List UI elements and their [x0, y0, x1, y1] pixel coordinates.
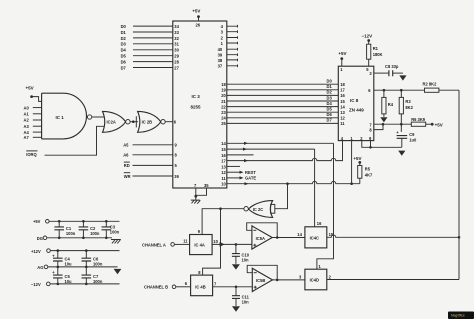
svg-text:A4: A4: [24, 130, 30, 135]
wire WR to IC3 pin36: [133, 175, 173, 177]
node DG rail: [37, 236, 47, 241]
wire RD to IC3 pin5: [133, 164, 173, 166]
IC U4A analog switch body: [190, 235, 213, 255]
node CHANNEL A: [142, 242, 174, 247]
node CHANNEL B: [144, 285, 176, 290]
svg-text:29: 29: [174, 54, 179, 59]
wire D1 to pin33: [133, 30, 180, 35]
svg-text:R4: R4: [388, 102, 394, 107]
node +5V (R6): [431, 122, 443, 127]
wire A2: [33, 119, 42, 121]
junction C10: [235, 243, 238, 246]
svg-text:100n: 100n: [110, 230, 120, 235]
svg-text:IC4C: IC4C: [310, 235, 319, 240]
pin 11 GATE: [221, 176, 256, 181]
wire AG rail: [48, 266, 118, 268]
capacitor C9 1u0: [396, 130, 417, 147]
resistor R6 3K9: [411, 117, 432, 126]
node +5V (IC1 top input): [26, 86, 34, 99]
node +5V rail: [33, 219, 49, 224]
svg-text:RD: RD: [124, 163, 130, 168]
SECTION-IC3: [121, 8, 360, 275]
svg-text:DG: DG: [37, 236, 43, 241]
capacitor C1 100n: [54, 221, 75, 238]
resistor R4: [382, 90, 394, 117]
svg-text:14: 14: [340, 104, 345, 109]
bus D2 pin20 to ADC pin16: [221, 90, 345, 99]
pin 2 stub: [221, 35, 238, 40]
svg-text:R3: R3: [405, 99, 411, 104]
junction C4 top: [57, 249, 60, 252]
svg-text:D0: D0: [327, 79, 333, 84]
wire D2 to pin32: [133, 36, 180, 41]
junction R4 top: [383, 89, 386, 92]
junction pin9: [369, 146, 372, 149]
svg-text:IC5B: IC5B: [256, 278, 265, 283]
wire D5 to pin29: [133, 54, 180, 59]
svg-text:D7: D7: [121, 65, 127, 70]
junction IC5B out: [276, 279, 279, 282]
svg-text:16: 16: [317, 221, 322, 226]
pin 1 stub: [221, 41, 238, 46]
pin 2 wire IC4D out to loop: [327, 274, 459, 279]
svg-text:D3: D3: [327, 95, 333, 100]
capacitor C10 10n: [232, 244, 250, 264]
svg-text:D4: D4: [327, 101, 333, 106]
wire IC5B feedback: [247, 265, 277, 280]
resistor R1 180K: [367, 41, 383, 60]
wire IC2A out to IC2B inputs: [130, 121, 138, 123]
wire IC2C input tap: [275, 184, 288, 209]
resistor R2 8K2: [423, 82, 460, 93]
svg-text:1u0: 1u0: [409, 138, 417, 143]
IC U4C body: [305, 227, 327, 248]
node AG rail: [37, 265, 48, 270]
ground (IC3 pins 7,35 hatched): [191, 200, 201, 204]
node RD: [124, 162, 130, 168]
junction C6 bottom: [85, 266, 88, 269]
capacitor C8 33p: [385, 64, 403, 76]
wire CHANNEL A to IC4A pin11: [174, 239, 189, 245]
svg-text:180K: 180K: [373, 52, 383, 57]
capacitor C4 10u: [52, 251, 72, 267]
svg-text:IORQ: IORQ: [26, 152, 37, 157]
junction C1 top: [58, 220, 61, 223]
svg-text:IC 2B: IC 2B: [142, 120, 153, 125]
svg-text:4K7: 4K7: [365, 173, 373, 178]
svg-text:11: 11: [340, 121, 345, 126]
svg-text:21: 21: [221, 99, 226, 104]
wire IORQ to IC2A lower input: [45, 126, 104, 155]
svg-text:100n: 100n: [93, 279, 103, 284]
capacitor C5 10u: [52, 267, 72, 284]
svg-text:13: 13: [221, 164, 226, 169]
wire D4 to pin30: [133, 48, 180, 53]
pin 13 stub: [221, 164, 240, 169]
arrowhead control join: [220, 242, 225, 247]
svg-text:38: 38: [218, 58, 223, 63]
wire -12V rail: [50, 283, 119, 285]
svg-text:100n: 100n: [66, 231, 76, 236]
svg-text:10n: 10n: [242, 258, 250, 263]
capacitor C6 100n: [82, 251, 103, 267]
pin 7 wire IC4B out: [213, 281, 253, 287]
wire pin15 vertical down to IC4C pin16: [314, 149, 316, 227]
wire IC2B out to IC3 pin6: [165, 121, 173, 123]
junction C3 top: [105, 220, 108, 223]
svg-text:D2: D2: [327, 90, 333, 95]
svg-text:GATE: GATE: [245, 176, 256, 181]
svg-text:12: 12: [340, 116, 345, 121]
junction C11: [235, 286, 238, 289]
ground (C11): [232, 306, 240, 313]
svg-text:A6: A6: [123, 153, 129, 158]
ground (DG hatched): [111, 240, 121, 244]
wire +5V to pin26: [198, 17, 200, 21]
SECTION-LEFT: [24, 86, 173, 179]
junction C7 bottom: [85, 283, 88, 286]
pin 12 REST: [221, 170, 256, 175]
wire CHANNEL B to IC4B pin6: [176, 281, 191, 287]
ground (C10): [232, 264, 240, 271]
svg-text:IC 8: IC 8: [350, 98, 359, 103]
pin 40 stub: [218, 47, 238, 52]
wire ADC pin1 down to pin10 net: [351, 141, 353, 184]
wire +5V rail: [49, 220, 119, 222]
wire right loop vertical: [458, 90, 460, 279]
op-amp IC5B: [252, 268, 272, 291]
svg-text:+5V: +5V: [192, 8, 200, 13]
svg-text:R6 3K9: R6 3K9: [411, 117, 426, 122]
svg-text:10u: 10u: [65, 279, 73, 284]
wire IC1 out to IC2A: [92, 116, 104, 118]
wire A0: [33, 107, 42, 109]
wire A3: [33, 125, 42, 127]
svg-text:D1: D1: [327, 84, 333, 89]
svg-text:IC4D: IC4D: [310, 278, 319, 283]
svg-text:14: 14: [221, 141, 226, 146]
bus D7 pin25 to ADC pin11: [221, 118, 345, 127]
bus D4 pin22 to ADC pin14: [221, 101, 345, 110]
pin 15 wire IC4C out to loop: [327, 232, 459, 237]
svg-text:+5V: +5V: [26, 86, 34, 91]
svg-text:R2 8K2: R2 8K2: [423, 82, 438, 87]
svg-text:CHANNEL A: CHANNEL A: [142, 242, 166, 247]
watermark: [448, 312, 474, 319]
gate IC2A (NOR): [103, 111, 131, 132]
node +12V rail: [31, 249, 50, 254]
capacitor C11 10n: [232, 287, 250, 306]
svg-text:11: 11: [221, 176, 226, 181]
svg-text:IC5A: IC5A: [256, 236, 265, 241]
capacitor C2 100n: [79, 221, 100, 238]
pin 7 label and ground lead: [194, 183, 197, 200]
svg-text:37: 37: [218, 64, 223, 69]
svg-text:31: 31: [174, 42, 179, 47]
IC U4B body: [191, 275, 213, 296]
svg-text:D3: D3: [121, 42, 127, 47]
svg-text:+5V: +5V: [435, 122, 443, 127]
bus D6 pin24 to ADC pin12: [221, 112, 345, 121]
pin 10 wire IC4A out: [212, 239, 252, 245]
svg-text:D5: D5: [121, 54, 127, 59]
wire A5 to IC3 pin9: [133, 144, 173, 146]
svg-text:D4: D4: [121, 48, 127, 53]
svg-text:20: 20: [221, 93, 226, 98]
svg-text:17: 17: [340, 88, 345, 93]
pin 4 stub: [221, 24, 238, 29]
svg-text:8K2: 8K2: [405, 105, 413, 110]
SECTION-RIGHT: [338, 34, 459, 280]
svg-text:100n: 100n: [90, 231, 100, 236]
pin 14 wire to ADC pin4: [221, 141, 333, 146]
bus D0 pin18 to ADC pin18: [221, 79, 345, 88]
svg-text:10: 10: [221, 182, 226, 187]
svg-text:36: 36: [174, 174, 179, 179]
svg-text:10u: 10u: [65, 261, 73, 266]
wire +5V to IC1 input: [32, 97, 42, 102]
IC U8 ZN448 ADC body: [338, 66, 374, 140]
svg-text:+5V: +5V: [33, 219, 41, 224]
junction C2 bottom: [82, 237, 85, 240]
svg-text:22: 22: [221, 104, 226, 109]
wire pin14 vertical down to IC4D: [317, 143, 334, 269]
pin 38 stub: [218, 58, 238, 63]
node WR: [124, 173, 131, 179]
pin 35 label and lead: [196, 183, 209, 195]
svg-text:24: 24: [221, 116, 226, 121]
svg-text:19: 19: [221, 88, 226, 93]
wire D7 to pin27: [133, 65, 180, 70]
svg-text:R1: R1: [373, 46, 379, 51]
svg-text:34: 34: [174, 24, 179, 29]
svg-text:11: 11: [183, 239, 188, 244]
junction R3 bottom / C9: [400, 123, 403, 126]
svg-text:A0: A0: [24, 105, 30, 110]
svg-text:+5V: +5V: [353, 156, 361, 161]
wire DG rail: [47, 237, 112, 239]
capacitor C7 100n: [82, 267, 103, 284]
junction loop: [458, 236, 461, 239]
svg-text:Mag0ffice: Mag0ffice: [451, 314, 465, 318]
svg-text:A7: A7: [24, 135, 30, 140]
pin 10 wire to ADC pin1 and R5: [221, 181, 360, 186]
svg-text:C8 33p: C8 33p: [385, 64, 399, 69]
svg-text:A2: A2: [24, 118, 30, 123]
svg-text:IC 4A: IC 4A: [194, 242, 205, 247]
junction C3 bottom: [105, 237, 108, 240]
node -12V: [362, 34, 373, 42]
op-amp IC5A: [252, 226, 272, 249]
svg-text:−12V: −12V: [362, 34, 373, 39]
svg-text:12: 12: [221, 170, 226, 175]
wire +5V to ADC pin1: [340, 59, 343, 73]
wire D6 to pin28: [133, 60, 180, 65]
IC U3 8255 body: [173, 21, 227, 188]
node -12V rail: [31, 282, 50, 287]
svg-text:D2: D2: [121, 36, 127, 41]
ground (R4): [380, 117, 387, 124]
svg-text:18: 18: [340, 82, 345, 87]
svg-text:A1: A1: [24, 112, 30, 117]
svg-text:25: 25: [221, 121, 226, 126]
svg-text:13: 13: [340, 110, 345, 115]
svg-text:C9: C9: [409, 132, 415, 137]
svg-text:100n: 100n: [93, 261, 103, 266]
wire IC5A out to IC4C pin14: [272, 232, 305, 238]
wire IC5B out to IC4D pin3: [273, 274, 305, 280]
svg-text:14: 14: [297, 232, 302, 237]
junction pin10 to IC2C: [286, 182, 289, 185]
pin 7 wire to R6: [369, 122, 411, 127]
svg-text:+5V: +5V: [338, 51, 346, 56]
wire A7: [33, 136, 42, 138]
pin 15 wire: [221, 147, 314, 152]
svg-text:23: 23: [221, 110, 226, 115]
svg-text:16: 16: [221, 153, 226, 158]
svg-text:IC 4B: IC 4B: [195, 285, 206, 290]
wire control to IC4B pin8: [203, 209, 221, 275]
wire IC2C output to IC4A pin9: [202, 209, 244, 235]
svg-text:16: 16: [340, 93, 345, 98]
svg-text:18: 18: [221, 82, 226, 87]
svg-text:AG: AG: [37, 265, 43, 270]
svg-text:WR: WR: [124, 174, 131, 179]
svg-text:IC2A: IC2A: [107, 120, 116, 125]
bus D5 pin23 to ADC pin13: [221, 107, 345, 116]
junction C1 bottom: [58, 237, 61, 240]
svg-text:+12V: +12V: [31, 249, 41, 254]
bus D3 pin21 to ADC pin15: [221, 95, 345, 104]
svg-text:R5: R5: [365, 167, 371, 172]
wire pins 2,9 to ground: [362, 141, 402, 148]
junction C2 top: [82, 220, 85, 223]
svg-text:D7: D7: [327, 118, 333, 123]
svg-text:28: 28: [174, 60, 179, 65]
gate IC2C (NOR inverter, mirrored): [244, 201, 275, 218]
svg-text:27: 27: [174, 65, 179, 70]
pin 6 wire to R2: [368, 88, 424, 93]
IC U4D body: [305, 269, 327, 290]
svg-text:40: 40: [218, 47, 223, 52]
svg-text:IC 3: IC 3: [192, 94, 201, 99]
svg-text:8255: 8255: [191, 104, 202, 109]
svg-text:−12V: −12V: [31, 282, 41, 287]
junction R3 top: [400, 89, 403, 92]
pin 16 stub: [221, 153, 253, 158]
svg-text:15: 15: [221, 147, 226, 152]
junction IC2B input tie: [132, 116, 136, 127]
capacitor C3 100n: [102, 221, 120, 238]
pin 3 wire to C8: [369, 71, 388, 76]
junction IC5A out: [276, 236, 279, 239]
resistor R5 4K7: [358, 162, 373, 183]
wire A4: [33, 131, 42, 133]
gate IC1 (8-input NAND): [42, 93, 92, 139]
svg-text:D6: D6: [327, 112, 333, 117]
wire D3 to pin31: [133, 42, 180, 47]
node IORQ: [26, 151, 37, 157]
wire A6 to IC3 pin8: [133, 154, 173, 156]
ground (C9 / pins 2,9): [398, 147, 405, 157]
svg-text:ZN 449: ZN 449: [349, 108, 364, 113]
wire D0 to pin34: [133, 24, 180, 29]
node +5V (R5): [353, 156, 361, 164]
svg-text:CHANNEL B: CHANNEL B: [144, 285, 168, 290]
wire A1: [33, 113, 42, 115]
wire IC5A feedback: [247, 223, 278, 238]
pin 17 wire to ADC pin4 lead: [221, 141, 342, 164]
ground (AG): [114, 267, 122, 276]
svg-text:D1: D1: [121, 30, 127, 35]
resistor R3 8K2: [399, 90, 413, 132]
junction C4 bottom: [57, 266, 60, 269]
svg-text:A5: A5: [123, 143, 129, 148]
svg-text:17: 17: [221, 159, 226, 164]
svg-text:30: 30: [174, 48, 179, 53]
wire +12V rail: [50, 250, 119, 252]
wire R1 to ADC pin5: [366, 59, 369, 72]
pin 3 stub: [221, 30, 238, 35]
svg-text:33: 33: [174, 30, 179, 35]
svg-text:A3: A3: [24, 124, 30, 129]
pin 8 wire: [369, 124, 383, 133]
svg-text:IC 2C: IC 2C: [253, 207, 264, 212]
pin 37 stub: [218, 64, 238, 69]
SECTION-BOTTOM: [31, 219, 474, 319]
bus D1 pin19 to ADC pin17: [221, 84, 345, 93]
svg-text:D0: D0: [121, 24, 127, 29]
svg-text:IC 1: IC 1: [56, 115, 65, 120]
ground (C8): [399, 75, 406, 82]
svg-text:D5: D5: [327, 107, 333, 112]
junction ADC pin1: [350, 182, 353, 185]
svg-text:15: 15: [340, 99, 345, 104]
svg-text:35: 35: [204, 183, 209, 188]
node +5V (IC3 pin26): [192, 8, 200, 18]
svg-text:10n: 10n: [242, 300, 250, 305]
gate IC2B (NOR): [138, 111, 166, 132]
junction pin8 tie: [382, 123, 385, 126]
svg-text:REST: REST: [245, 170, 256, 175]
junction C6 top: [85, 249, 88, 252]
svg-text:D6: D6: [121, 59, 127, 64]
pin 39 stub: [218, 53, 238, 58]
node +5V (ADC pin1 top): [338, 51, 346, 60]
svg-text:10: 10: [213, 239, 218, 244]
junction IC2C out: [219, 207, 222, 210]
svg-text:32: 32: [174, 36, 179, 41]
svg-text:26: 26: [196, 23, 201, 28]
junction C5 bottom: [57, 283, 60, 286]
